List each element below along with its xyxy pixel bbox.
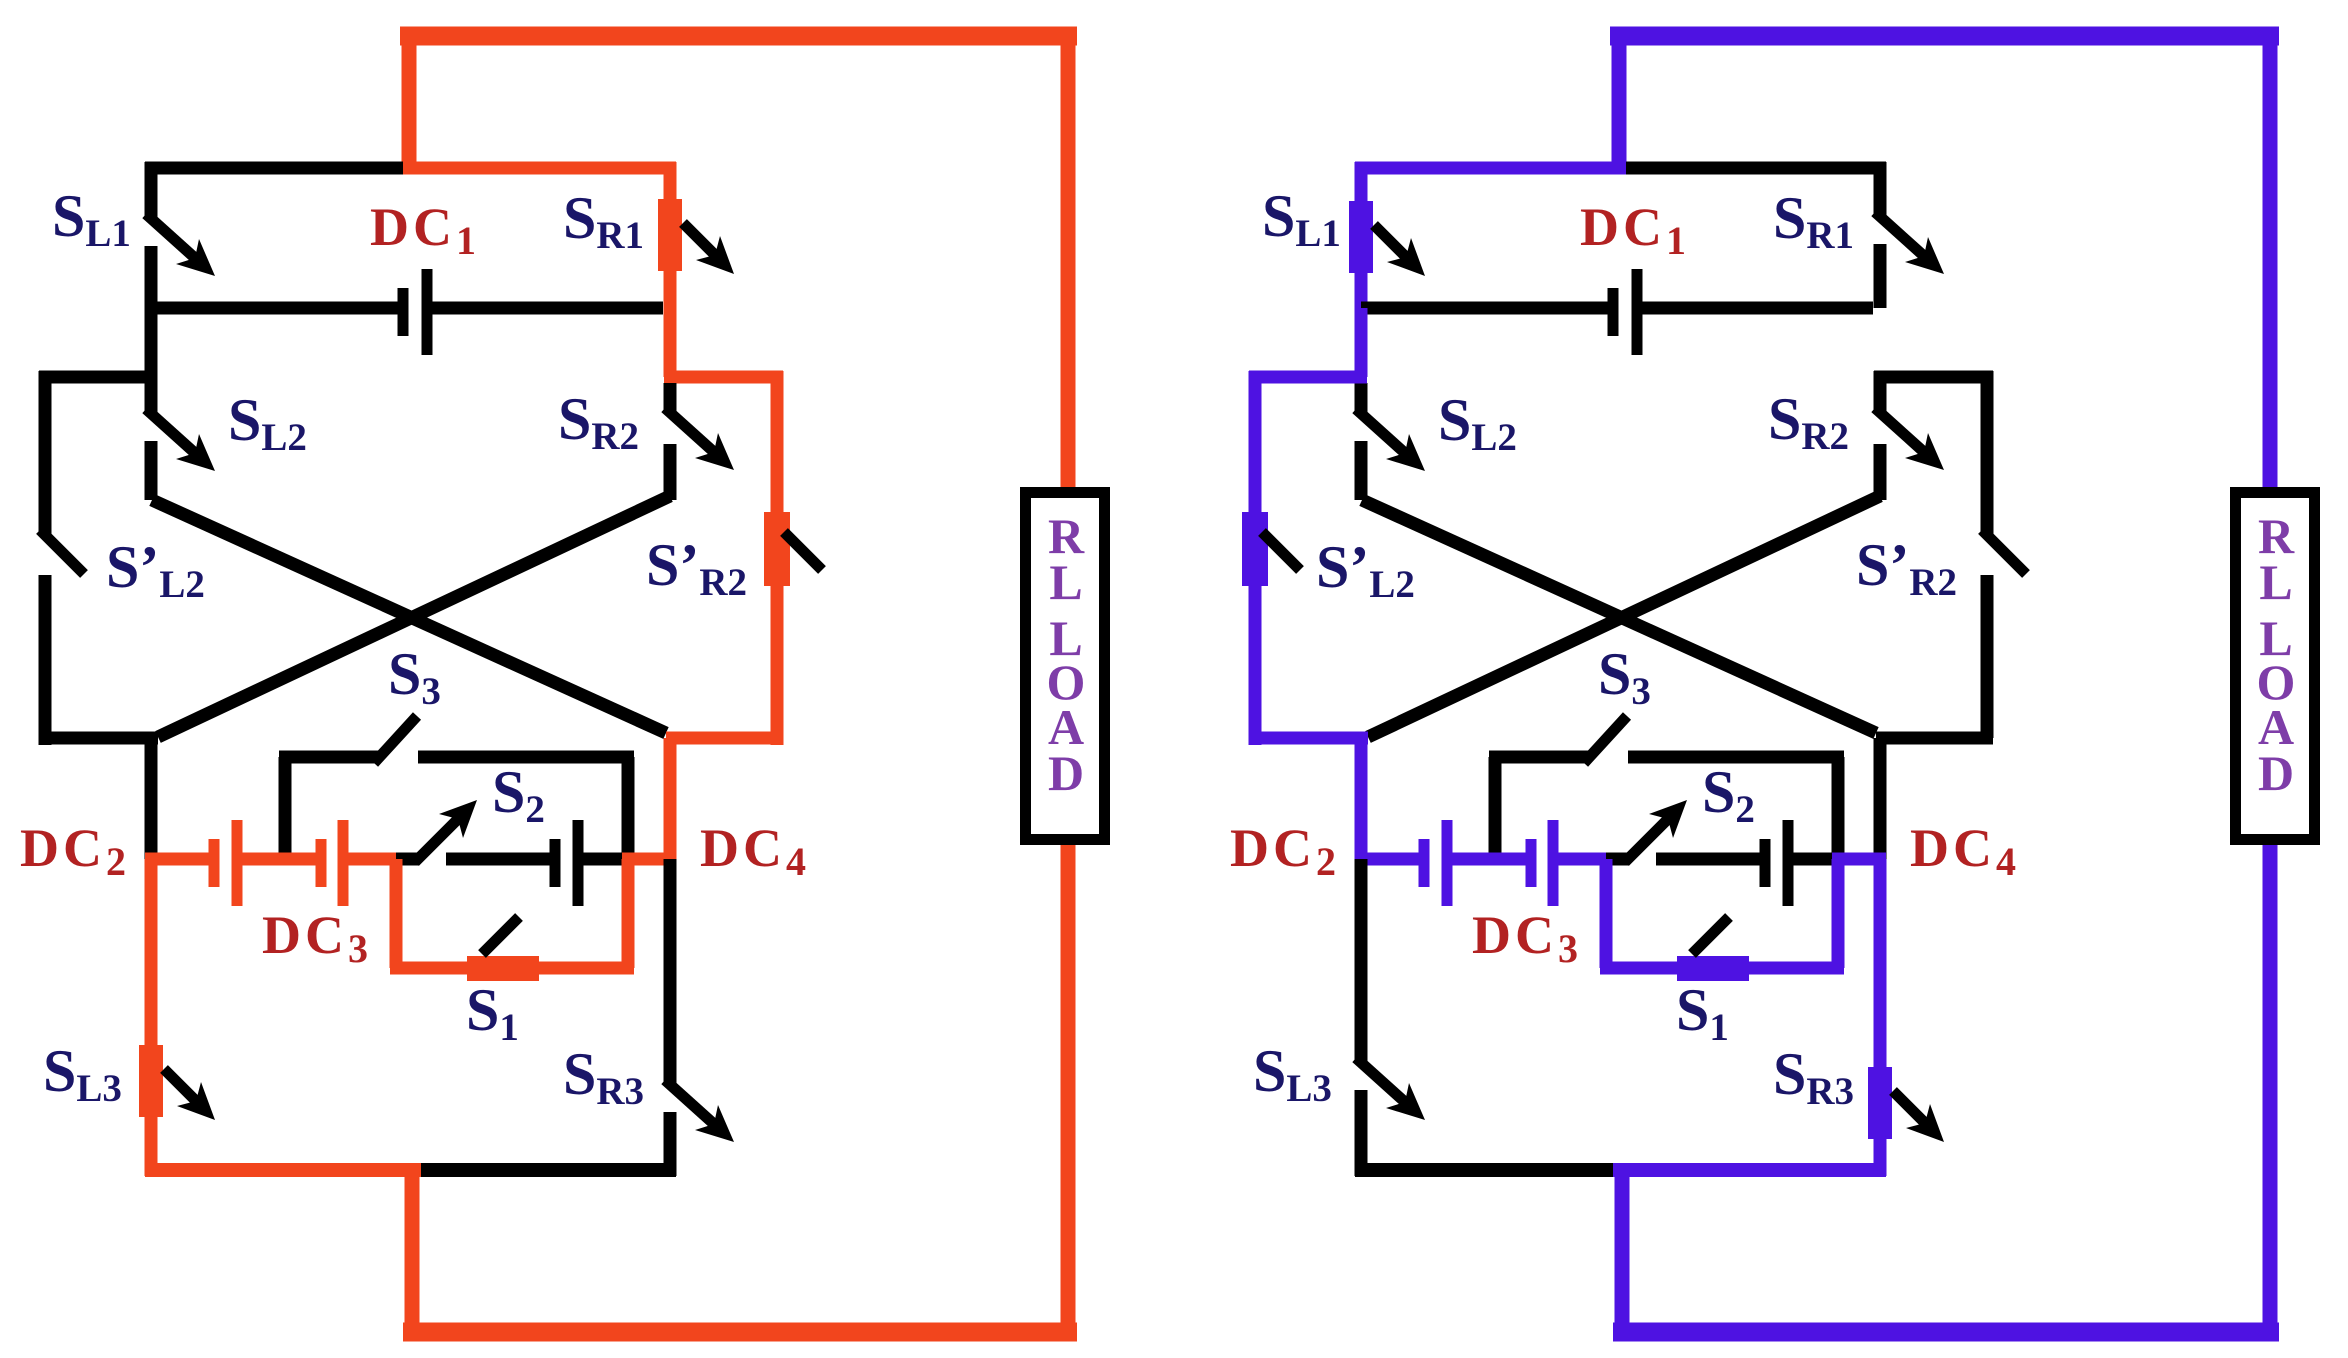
- switch S'_R2 (right circuit) (open): arm: [1982, 530, 2026, 574]
- wire: right jog horizontal to S'_R2 column (right circuit): [1874, 371, 1993, 384]
- switch S_2 (open): arm with arrowhead pointing up-right (right circuit): [1625, 818, 1669, 862]
- wire: bottom jog vertical (left circuit): [405, 1170, 420, 1324]
- battery DC3 (left circuit): short (negative) plate: [316, 839, 327, 887]
- wire: diagonal from S_R2 to DC2 node (right circuit): [1368, 496, 1880, 737]
- switch S'_R2 (right circuit) (open): lower lead: [1981, 575, 1994, 738]
- wire: diagonal from S_L2 to DC4 node (left circuit): [152, 500, 666, 733]
- wire: S3 loop right vertical (right circuit): [1832, 757, 1845, 859]
- wire: DC1 row left lead (left circuit): [151, 302, 398, 315]
- switch S_R1 (left circuit) (closed): arm arrow: [683, 223, 716, 256]
- svg-text:D: D: [1048, 745, 1084, 801]
- wire: S2 row to DC4 (right circuit): [1656, 853, 1760, 866]
- switch S_L3 (open): arm with arrowhead (right circuit): [1356, 1058, 1406, 1103]
- switch S_R1 (left circuit) (closed, highlighted): conducting lead: [664, 162, 677, 377]
- wire: S3 row left segment (left circuit): [279, 751, 378, 764]
- wire: bottom-right horizontal under S'_R2 (right circuit): [1876, 732, 1993, 745]
- switch S'_L2 (right circuit) (closed): arm: [1262, 532, 1300, 570]
- battery DC1 (left circuit): long (positive) plate: [422, 269, 433, 355]
- battery DC1 (left circuit): short (negative) plate: [398, 288, 409, 336]
- wire: bottom row left segment (left circuit): [145, 1163, 421, 1177]
- wire: S3 loop left vertical (right circuit): [1489, 757, 1502, 859]
- wire: right column down to DC4 node (left circuit): [664, 738, 677, 859]
- wire: right column 377-412 upper part of S_R2 (right circuit): [1874, 371, 1887, 412]
- switch S_R3 (right circuit) (closed): arm arrow: [1893, 1091, 1926, 1124]
- wire: right column down to DC4 node (right circuit): [1874, 738, 1887, 859]
- switch S_L2 (open): lower lead (left circuit): [145, 441, 158, 500]
- wire: bottom jog vertical (right circuit): [1615, 1170, 1630, 1324]
- switch S'_R2 (right circuit) (open): upper lead: [1981, 371, 1994, 534]
- wire: battery row DC4 to S1 riser (left circuit): [583, 853, 628, 866]
- wire: S_R3 column upper (left circuit): [664, 859, 677, 1084]
- wire: battery row DC3 to S1 tap (left circuit): [348, 853, 403, 866]
- switch S'_L2 (right circuit) (closed, highlighted): conducting lead: [1249, 371, 1262, 745]
- wire: diagonal from S_L2 to DC4 node (right circuit): [1362, 500, 1876, 733]
- battery DC2 (left circuit): short (negative) plate: [209, 839, 220, 887]
- wire: S3 row right segment (right circuit): [1628, 751, 1844, 764]
- switch S'_L2 (right circuit) (closed, highlighted): switch body: [1242, 512, 1268, 586]
- switch S'_L2 (left circuit) (open): arm: [40, 530, 84, 574]
- switch S_3 (open): arm (left circuit): [374, 716, 417, 763]
- switch S_L3 (left circuit) (closed, highlighted): conducting lead: [145, 859, 158, 1176]
- wire: left column down to DC2 node (right circuit): [1355, 738, 1368, 859]
- switch S_R3 (open): lower lead (left circuit): [664, 1112, 677, 1176]
- wire: S2 row stub (left circuit): [396, 853, 419, 866]
- switch S_1 (closed): arm (left circuit): [482, 917, 519, 954]
- switch S'_R2 (left circuit) (closed): arm: [784, 532, 822, 570]
- switch S_L1 (left circuit) (open): lower lead: [145, 246, 158, 308]
- switch S_L1 (right circuit) (closed, highlighted): conducting lead: [1355, 162, 1368, 377]
- wire: DC1 row right lead (right circuit): [1642, 302, 1873, 315]
- wire: left column 308-377 highlighted (right circuit): [1355, 308, 1368, 377]
- wire: battery row S1 riser to DC4 node (left circuit): [622, 853, 676, 866]
- wire: diagonal from S_R2 to DC2 node (left circuit): [158, 496, 670, 737]
- wire: right jog horizontal to S'_R2 column (left circuit): [664, 371, 783, 384]
- wire: bottom-right horizontal under S'_R2 (left circuit): [666, 732, 783, 745]
- battery DC2 (left circuit): long (positive) plate: [232, 820, 243, 906]
- wire: DC1 row left lead (right circuit): [1361, 302, 1608, 315]
- wire: S3 loop left vertical (left circuit): [279, 757, 292, 859]
- switch S_1 (closed, highlighted): body (right circuit): [1677, 956, 1749, 981]
- wire: S3 row left segment (right circuit): [1489, 751, 1588, 764]
- switch S_R1 (right circuit) (open): lower lead: [1874, 244, 1887, 308]
- wire: jog vertical up to top rail (left circuit): [402, 27, 417, 168]
- switch S_L2 (open): lower lead (right circuit): [1355, 441, 1368, 500]
- wire: S1 loop right vertical (left circuit): [622, 859, 635, 968]
- wire: S1 row right segment (left circuit): [539, 962, 634, 975]
- resistor RL LOAD box (left circuit): [1026, 493, 1105, 840]
- wire: jog vertical up to top rail (right circuit): [1612, 27, 1627, 168]
- wire: S1 loop right vertical (right circuit): [1832, 859, 1845, 968]
- wire: S1 row left segment (right circuit): [1600, 962, 1677, 975]
- switch S_L1 (left circuit) (open): upper lead: [145, 162, 158, 218]
- wire: S2 row stub (right circuit): [1606, 853, 1629, 866]
- wire: battery row from DC2 node to DC2 (left circuit): [145, 853, 210, 866]
- switch S_R1 (left circuit) (closed, highlighted): switch body: [658, 199, 682, 271]
- wire: left jog horizontal to S'_L2 column (right circuit): [1249, 371, 1367, 384]
- battery DC2 (right circuit): long (positive) plate: [1442, 820, 1453, 906]
- switch S_L2 (open): arm with arrowhead (right circuit): [1356, 409, 1406, 454]
- wire: S2 row to DC4 (left circuit): [446, 853, 550, 866]
- wire: S1 loop left vertical (left circuit): [390, 859, 403, 968]
- wire: battery row DC4 to S1 riser (right circuit): [1793, 853, 1838, 866]
- wire: top outer horizontal (left circuit): [400, 27, 1077, 46]
- battery DC4 (left circuit): short (negative) plate: [550, 839, 561, 887]
- switch S_3 (open): arm (right circuit): [1584, 716, 1627, 763]
- switch S_R2 (open): arm with arrowhead (right circuit): [1875, 408, 1925, 453]
- svg-text:D: D: [2258, 745, 2294, 801]
- switch S_R2 (open): arm with arrowhead (left circuit): [665, 408, 715, 453]
- switch S_1 (closed, highlighted): body (left circuit): [467, 956, 539, 981]
- switch S_R2 (open): lower lead (left circuit): [664, 444, 677, 500]
- wire: S1 loop left vertical (right circuit): [1600, 859, 1613, 968]
- battery DC1 (right circuit): long (positive) plate: [1632, 269, 1643, 355]
- battery DC4 (left circuit): long (positive) plate: [573, 820, 584, 906]
- wire: bottom row right segment (right circuit): [1613, 1163, 1886, 1177]
- switch S_2 (open): arm with arrowhead pointing up-right (left circuit): [415, 818, 459, 862]
- switch S_R3 (right circuit) (closed, highlighted): switch body: [1868, 1067, 1892, 1139]
- resistor RL LOAD box (right circuit): [2236, 493, 2315, 840]
- wire: left jog horizontal to S'_L2 column (left circuit): [39, 371, 157, 384]
- wire: inner top horizontal, S_L1 to jog (right circuit): [1355, 162, 1626, 175]
- switch S_L2 (open): arm with arrowhead (left circuit): [146, 409, 196, 454]
- switch S_R1 (right circuit) (open): upper lead: [1874, 162, 1887, 216]
- wire: battery row DC2 to DC3 (left circuit): [242, 853, 317, 866]
- wire: S_L3 column upper (right circuit): [1355, 859, 1368, 1062]
- wire: left column down to DC2 node (left circuit): [145, 738, 158, 859]
- wire: S1 row right segment (right circuit): [1749, 962, 1844, 975]
- wire: left column 377-413 upper part of S_L2 (right circuit): [1355, 383, 1368, 413]
- switch S'_R2 (left circuit) (closed, highlighted): switch body: [764, 512, 790, 586]
- switch S_L1 (right circuit) (closed): arm arrow: [1374, 225, 1407, 258]
- battery DC2 (right circuit): short (negative) plate: [1419, 839, 1430, 887]
- switch S_L1 (right circuit) (closed, highlighted): switch body: [1349, 201, 1373, 273]
- switch S_R1 (right circuit) (open): arm with arrowhead: [1875, 212, 1925, 257]
- wire: right rail RL load to bottom (right circuit): [2263, 840, 2278, 1341]
- switch S_L3 (left circuit) (closed, highlighted): switch body: [139, 1045, 163, 1117]
- wire: right rail RL load to bottom (left circuit): [1061, 840, 1076, 1341]
- wire: DC1 row right lead (left circuit): [432, 302, 663, 315]
- battery DC3 (right circuit): long (positive) plate: [1548, 820, 1559, 906]
- wire: top outer horizontal (right circuit): [1610, 27, 2279, 46]
- wire: inner top horizontal, S_L1 to jog (left circuit): [145, 162, 403, 175]
- battery DC1 (right circuit): short (negative) plate: [1608, 288, 1619, 336]
- switch S_L3 (open): lower lead (right circuit): [1355, 1090, 1368, 1176]
- switch S_R3 (open): arm with arrowhead (left circuit): [665, 1080, 715, 1125]
- wire: bottom row left segment (right circuit): [1355, 1163, 1613, 1177]
- wire: bottom-left horizontal under S'_L2 (right circuit): [1249, 732, 1368, 745]
- switch S_L3 (left circuit) (closed): arm arrow: [164, 1069, 197, 1102]
- wire: battery row DC2 to DC3 (right circuit): [1452, 853, 1527, 866]
- wire: S3 loop right vertical (left circuit): [622, 757, 635, 859]
- battery DC4 (right circuit): long (positive) plate: [1783, 820, 1794, 906]
- svg-text:L: L: [2259, 554, 2292, 610]
- wire: bottom row right segment (left circuit): [421, 1163, 676, 1177]
- switch S'_R2 (left circuit) (closed, highlighted): conducting lead: [771, 371, 784, 745]
- svg-text:L: L: [1049, 554, 1082, 610]
- switch S_R2 (open): lower lead (right circuit): [1874, 444, 1887, 500]
- wire: right rail down to RL load (right circuit): [2263, 27, 2278, 492]
- wire: battery row S1 riser to DC4 node (right circuit): [1832, 853, 1886, 866]
- switch S_R3 (right circuit) (closed, highlighted): conducting lead: [1874, 859, 1887, 1176]
- battery DC3 (right circuit): short (negative) plate: [1526, 839, 1537, 887]
- switch S_1 (closed): arm (right circuit): [1692, 917, 1729, 954]
- wire: bottom outer horizontal (left circuit): [403, 1323, 1077, 1342]
- wire: inner top horizontal, jog to S_R1 (right circuit): [1626, 162, 1886, 175]
- switch S'_L2 (left circuit) (open): lower lead: [39, 575, 52, 745]
- wire: battery row from DC2 node to DC2 (right circuit): [1355, 853, 1420, 866]
- wire: bottom outer horizontal (right circuit): [1613, 1323, 2279, 1342]
- switch S_L1 (left circuit) (open): arm with arrowhead: [146, 214, 196, 259]
- battery DC3 (left circuit): long (positive) plate: [338, 820, 349, 906]
- wire: bottom-left horizontal under S'_L2 (left circuit): [39, 732, 158, 745]
- switch S'_L2 (left circuit) (open): upper lead: [39, 371, 52, 534]
- wire: inner top horizontal, jog to S_R1 (left circuit): [403, 162, 676, 175]
- wire: S1 row left segment (left circuit): [390, 962, 467, 975]
- wire: right column 377-412 upper part of S_R2 (left circuit): [664, 383, 677, 412]
- wire: left column 308-413 upper part of S_L2 (left circuit): [145, 308, 158, 413]
- wire: right rail down to RL load (left circuit): [1061, 27, 1076, 492]
- wire: S3 row right segment (left circuit): [418, 751, 634, 764]
- wire: battery row DC3 to S1 tap (right circuit): [1558, 853, 1613, 866]
- battery DC4 (right circuit): short (negative) plate: [1760, 839, 1771, 887]
